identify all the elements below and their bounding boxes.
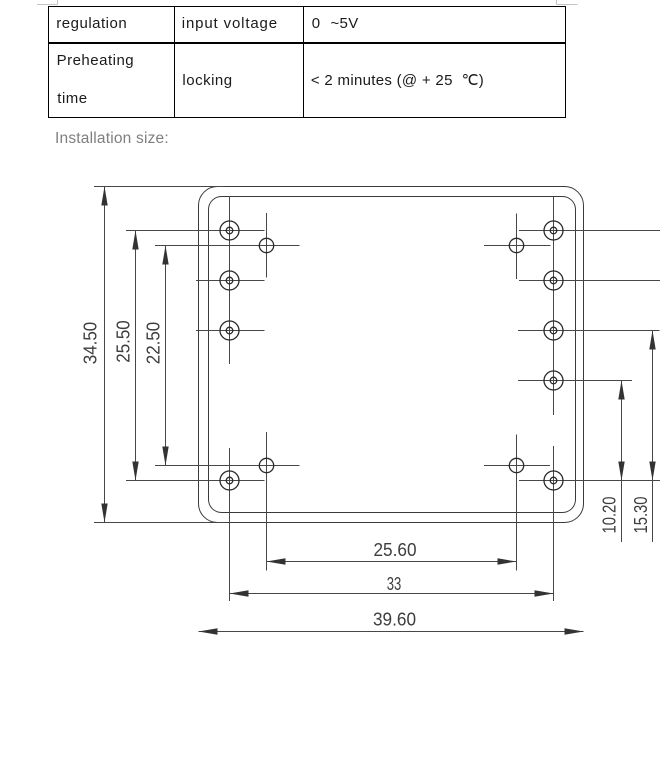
cell text: locking	[182, 73, 232, 88]
cell text: Preheating	[57, 53, 135, 68]
center line pin row top	[155, 245, 551, 247]
pin circle BL	[259, 458, 273, 472]
dim line 25.50	[135, 231, 137, 481]
gray table remnant top-right	[557, 0, 578, 5]
cell text: ~5V	[331, 16, 359, 31]
pin circle BR	[509, 458, 523, 472]
center line hole row4	[518, 380, 632, 382]
dim line 39.60	[199, 631, 584, 633]
hole R3	[544, 321, 563, 340]
hole L1	[220, 221, 239, 240]
hole R2	[544, 271, 563, 290]
center line hole row1	[126, 230, 660, 232]
arrow 15.30 top	[649, 331, 655, 350]
extension line bottom edge	[94, 522, 225, 524]
arrow 25.50 bottom	[132, 462, 138, 481]
arrow 22.50 top	[162, 246, 168, 265]
dim line 33	[230, 593, 554, 595]
cell text: 0	[312, 16, 321, 31]
center line pin row bottom	[155, 465, 550, 467]
hole R1	[544, 221, 563, 240]
dim line 10.20	[621, 381, 623, 543]
center line right pin column	[516, 214, 518, 571]
dim line 25.60	[267, 561, 517, 563]
extension line top edge	[94, 186, 225, 188]
gray table remnant top-left	[37, 0, 58, 5]
svg-text:25.50: 25.50	[113, 320, 134, 363]
cell text: time	[57, 91, 87, 106]
cell text: regulation	[56, 16, 127, 31]
hole R5	[544, 471, 563, 490]
arrow 39.60 right	[565, 628, 584, 634]
center line hole row2	[196, 280, 660, 282]
cell text: input voltage	[182, 16, 278, 31]
arrow 22.50 bottom	[162, 447, 168, 466]
svg-text:34.50: 34.50	[80, 322, 101, 365]
table frame	[48, 6, 566, 119]
dim line 22.50	[165, 246, 167, 466]
hole L2	[220, 271, 239, 290]
hole L4	[220, 471, 239, 490]
svg-text:39.60: 39.60	[373, 609, 416, 630]
center line hole row bottom	[126, 480, 660, 482]
arrow 33 left	[230, 590, 249, 596]
center line left hole column	[229, 196, 231, 601]
arrow 10.20 bottom	[618, 462, 624, 481]
arrow 25.60 left	[267, 558, 286, 564]
arrow 34.50 bottom	[101, 504, 107, 523]
arrow 10.20 top	[618, 381, 624, 400]
svg-text:22.50: 22.50	[143, 322, 164, 365]
table column divider 1	[174, 6, 175, 119]
module outline outer	[199, 187, 584, 523]
center line left pin column	[266, 213, 268, 571]
svg-text:10.20: 10.20	[599, 497, 620, 534]
center line hole row3	[196, 330, 660, 332]
arrow 33 right	[535, 590, 554, 596]
cell text: < 2 minutes	[311, 73, 484, 88]
hole R4	[544, 371, 563, 390]
table column divider 2	[303, 6, 304, 119]
center line right hole column	[553, 197, 555, 601]
arrow 34.50 top	[101, 187, 107, 206]
pin circle TR	[509, 238, 523, 252]
svg-text:33: 33	[387, 573, 402, 594]
arrow 15.30 bottom	[649, 462, 655, 481]
table row divider	[48, 42, 566, 43]
pin circle TL	[259, 238, 273, 252]
caption: Installation size	[55, 131, 169, 146]
arrow 39.60 left	[199, 628, 218, 634]
svg-text:25.60: 25.60	[374, 539, 417, 560]
dim line 34.50	[104, 187, 106, 523]
arrow 25.50 top	[132, 231, 138, 250]
arrow 25.60 right	[498, 558, 517, 564]
module outline inner	[209, 197, 576, 513]
dim line 15.30	[652, 331, 654, 543]
svg-text:15.30: 15.30	[630, 497, 651, 534]
hole L3	[220, 321, 239, 340]
